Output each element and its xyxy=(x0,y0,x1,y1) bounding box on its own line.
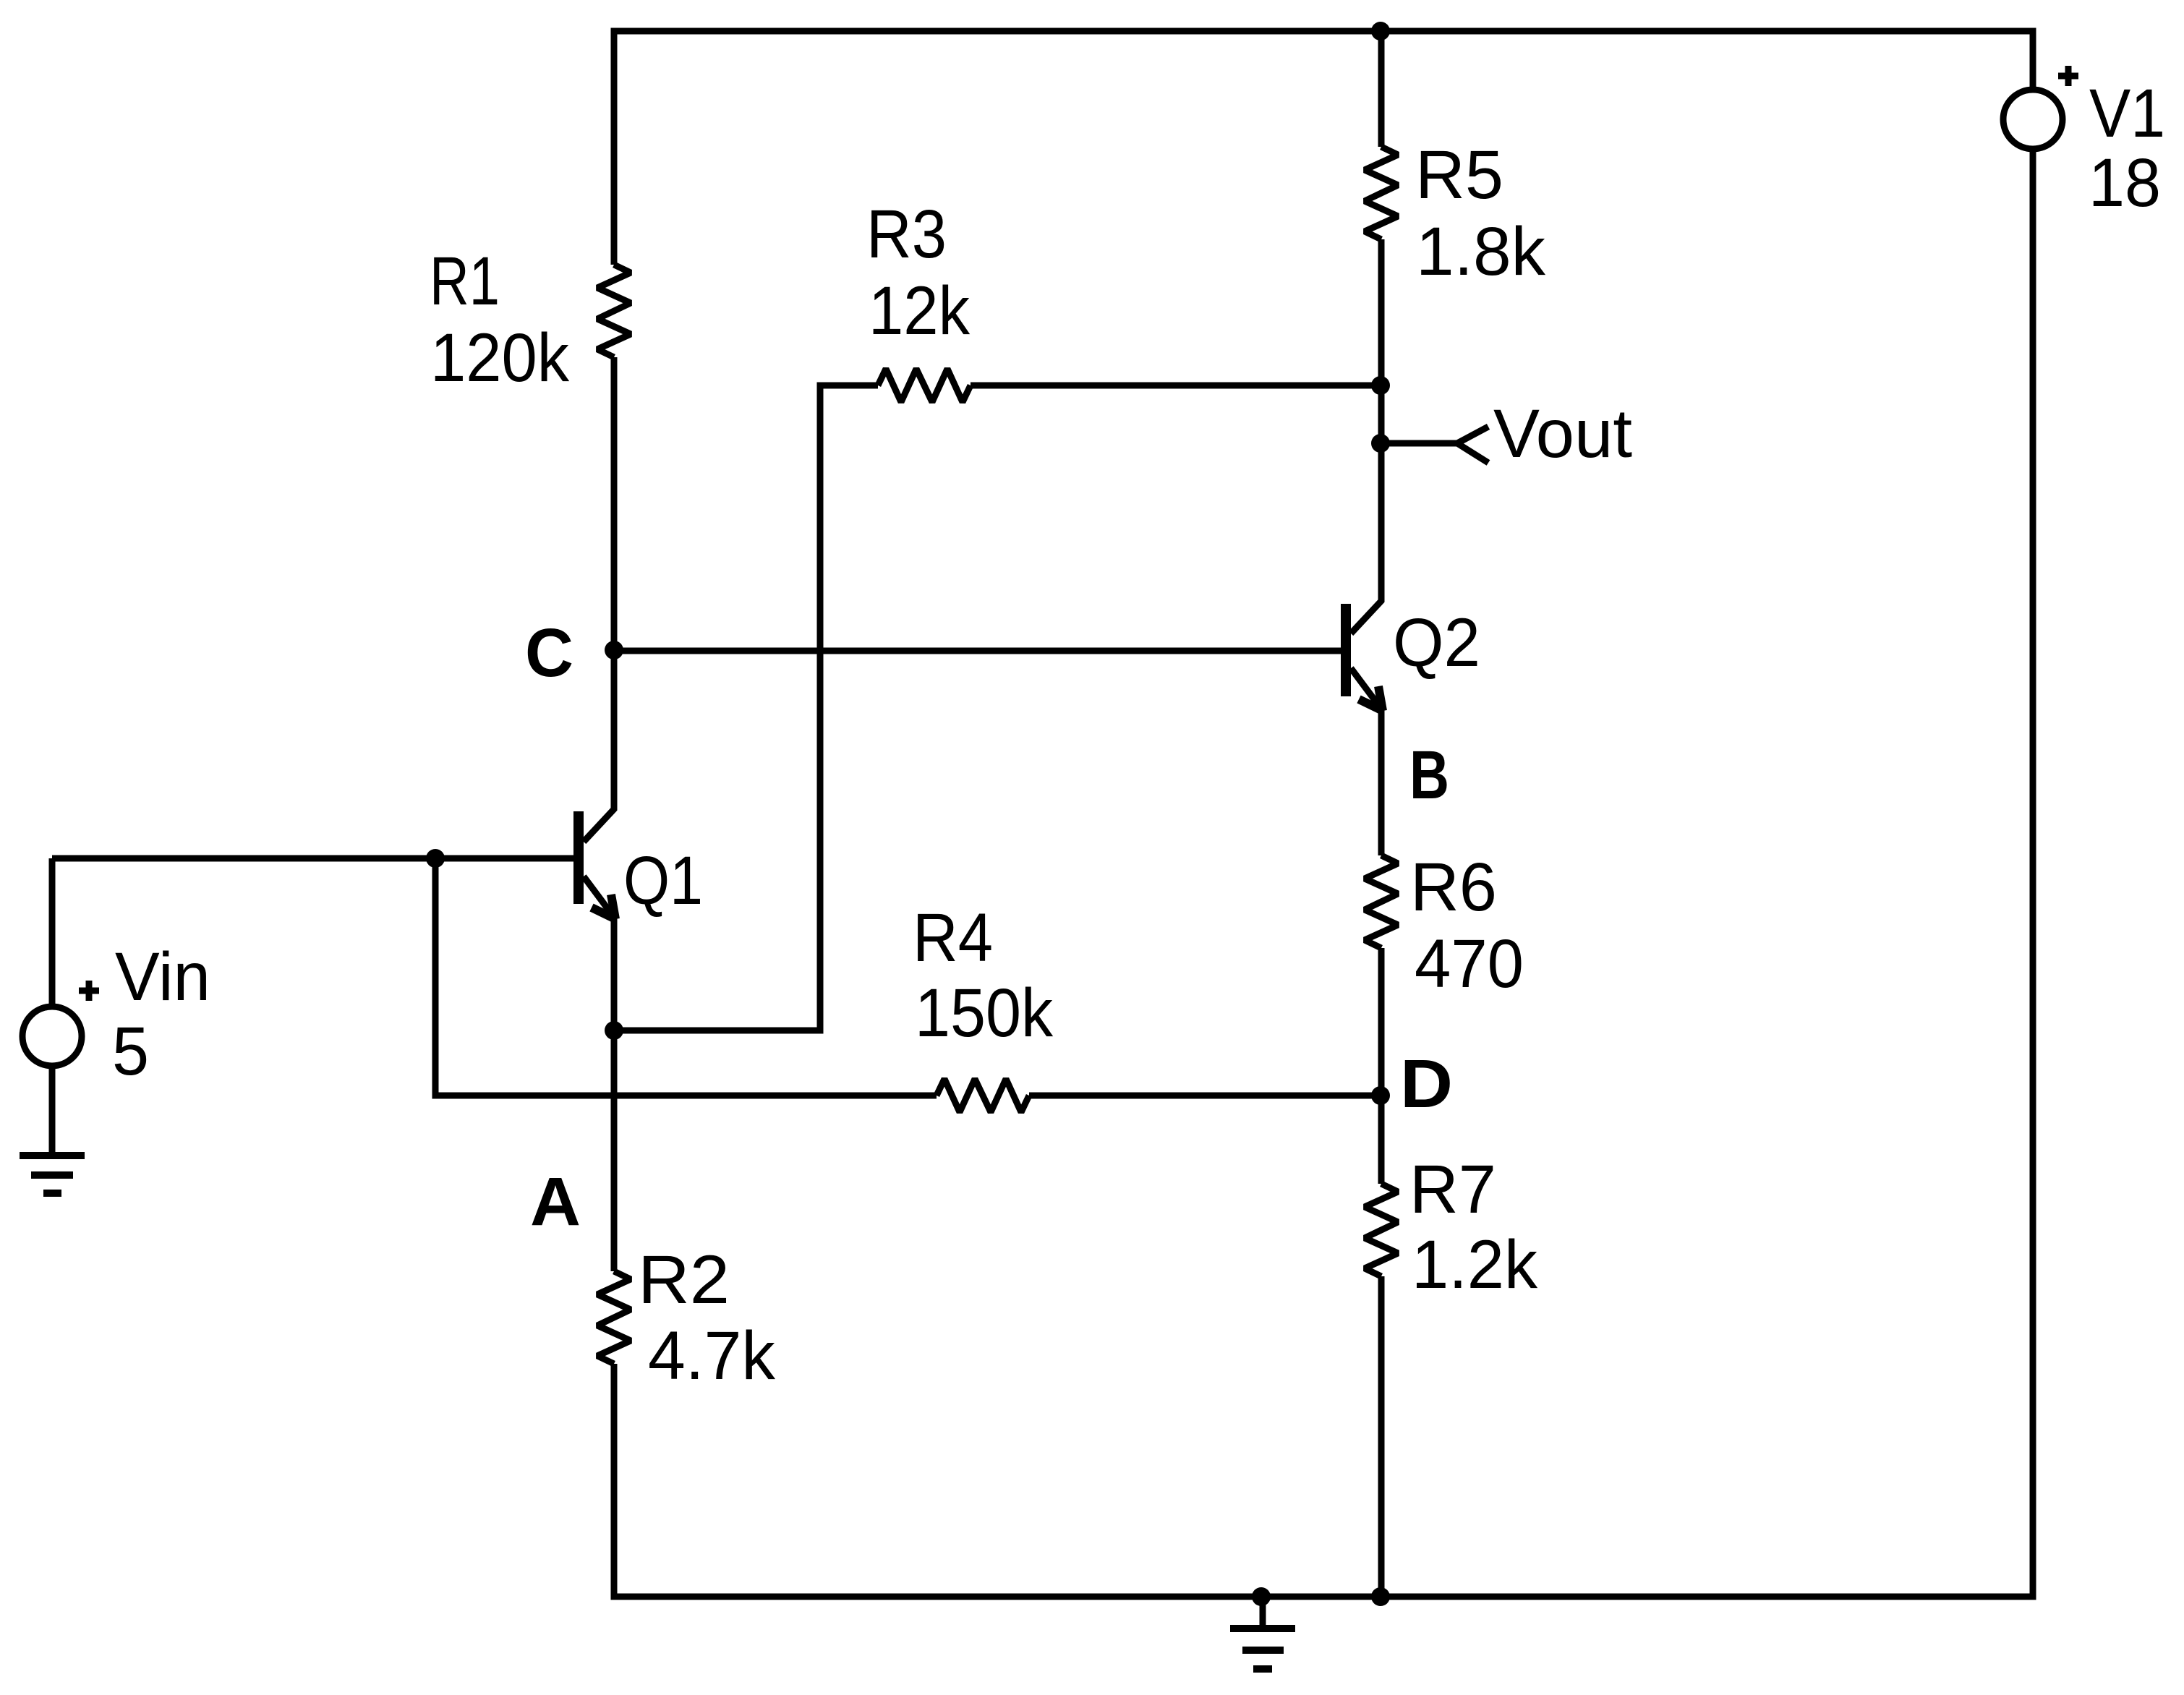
svg-text:18: 18 xyxy=(2089,145,2161,221)
resistor R4 xyxy=(937,1079,1029,1112)
resistor R6 xyxy=(1365,855,1398,948)
source V1 xyxy=(2003,66,2078,149)
wire emitter node right and up to R3 xyxy=(614,385,878,1030)
svg-text:B: B xyxy=(1409,737,1449,814)
node D xyxy=(1371,1086,1390,1105)
svg-text:A: A xyxy=(530,1164,581,1240)
svg-text:R7: R7 xyxy=(1409,1151,1496,1228)
node R3 junction xyxy=(1371,376,1390,395)
source Vin xyxy=(22,858,99,1152)
wire R7 bottom to bottom rail xyxy=(1378,1276,1385,1597)
resistor R2 xyxy=(597,1271,631,1364)
wire Q1 emitter down through emitter node to R2 top xyxy=(611,918,618,1271)
wire right edge below V1, bottom rail, up to R2 bottom xyxy=(614,149,2033,1597)
resistor R3 xyxy=(878,369,971,402)
wire R1 bottom to Q1 collector corner xyxy=(584,357,614,842)
svg-text:1.2k: 1.2k xyxy=(1412,1226,1537,1303)
svg-text:120k: 120k xyxy=(430,320,569,396)
resistor R1 xyxy=(597,265,631,357)
svg-text:R2: R2 xyxy=(638,1242,730,1318)
resistor R5 xyxy=(1365,147,1398,239)
wire R3 right to R5 branch xyxy=(971,383,1381,389)
node ground junction xyxy=(1252,1587,1271,1606)
wire top rail to R5 xyxy=(1378,31,1385,147)
ground bottom xyxy=(1230,1597,1295,1669)
node base junction xyxy=(426,849,445,868)
svg-text:Vout: Vout xyxy=(1493,396,1632,472)
svg-text:D: D xyxy=(1400,1046,1453,1122)
svg-text:Vin: Vin xyxy=(115,939,210,1015)
svg-text:1.8k: 1.8k xyxy=(1416,213,1545,290)
wire Q2 emitter down to R6 xyxy=(1378,709,1385,855)
transistor Q2 xyxy=(1341,604,1383,711)
node top rail R5 branch xyxy=(1371,22,1390,40)
wire base junction down and right to R4 xyxy=(435,858,937,1096)
wire Vout tap with arrow xyxy=(1381,440,1457,447)
svg-text:Q2: Q2 xyxy=(1393,605,1480,681)
svg-text:150k: 150k xyxy=(915,975,1053,1051)
transistor Q1 xyxy=(573,811,615,919)
wire Q1 base from Vin xyxy=(52,855,573,862)
svg-text:R3: R3 xyxy=(866,196,947,273)
svg-text:R1: R1 xyxy=(430,243,500,320)
svg-text:C: C xyxy=(525,615,573,691)
svg-text:R4: R4 xyxy=(913,900,993,976)
ground Vin xyxy=(20,1156,85,1193)
svg-text:470: 470 xyxy=(1415,926,1524,1002)
svg-text:4.7k: 4.7k xyxy=(648,1318,775,1394)
node R7 bottom xyxy=(1371,1587,1390,1606)
node emitter junction xyxy=(605,1021,623,1040)
svg-text:12k: 12k xyxy=(869,273,970,349)
wire node C to Q2 base xyxy=(614,648,1341,654)
wire top rail from R1 top up, across to right edge, down to V1 top xyxy=(614,31,2033,265)
node C xyxy=(605,641,623,659)
wire R4 right to node D xyxy=(1029,1093,1381,1099)
svg-text:V1: V1 xyxy=(2089,75,2165,152)
wire R5 bottom to Q2 collector corner xyxy=(1351,239,1381,633)
svg-text:5: 5 xyxy=(112,1013,149,1090)
node Vout xyxy=(1371,434,1390,453)
wire R6 bottom to R7 top xyxy=(1378,948,1385,1184)
svg-text:R5: R5 xyxy=(1415,137,1503,213)
svg-text:Q1: Q1 xyxy=(623,842,703,919)
svg-text:R6: R6 xyxy=(1410,849,1497,926)
resistor R7 xyxy=(1365,1184,1398,1276)
